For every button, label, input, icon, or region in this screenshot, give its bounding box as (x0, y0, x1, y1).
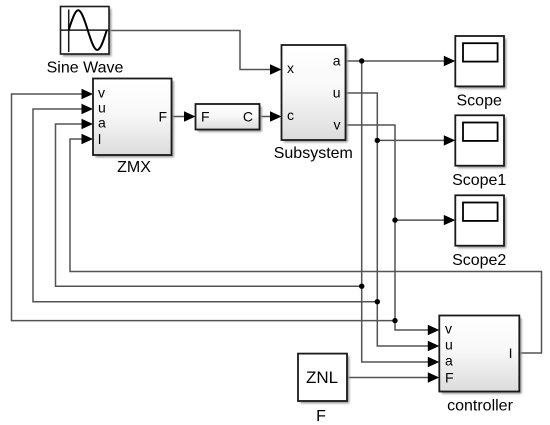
sine icon curve (69, 10, 107, 50)
wire v feedback to ZMX.v (12, 89, 396, 321)
block ZMX (93, 79, 174, 158)
junction dot a-feedback (359, 284, 364, 289)
svg-text:x: x (287, 60, 294, 76)
wire ZMX.F to FC (172, 111, 196, 121)
scope screen (463, 123, 498, 141)
junction dot v-scope2 (392, 217, 397, 222)
arrowhead into controller.u (428, 341, 440, 351)
svg-text:u: u (333, 85, 341, 101)
junction dot u-feedback (375, 299, 380, 304)
junction dot u-scope1 (375, 138, 380, 143)
svg-text:v: v (445, 321, 452, 337)
arrowhead into Subsystem.c (270, 111, 282, 121)
svg-text:ZNL: ZNL (306, 368, 338, 387)
svg-text:Subsystem: Subsystem (274, 145, 353, 162)
svg-text:v: v (334, 117, 341, 133)
wire FC to Subsystem.c (260, 111, 282, 121)
arrowhead into Scope (444, 56, 456, 66)
svg-text:a: a (98, 115, 106, 131)
sine icon vertical axis (68, 10, 70, 53)
svg-text:F: F (158, 109, 167, 125)
wire v branch to Scope2 (395, 215, 455, 225)
svg-text:a: a (333, 53, 341, 69)
svg-text:a: a (445, 353, 453, 369)
block F-C converter (196, 104, 262, 132)
svg-text:v: v (98, 85, 105, 101)
wire Subsystem.u down to controller.u (346, 93, 440, 351)
wire a feedback to ZMX.a (56, 119, 362, 286)
wire u feedback to ZMX.u (33, 104, 377, 302)
wire controller.I feedback to ZMX.l (70, 134, 542, 353)
arrowhead into FC.F (184, 111, 196, 121)
svg-text:u: u (98, 100, 106, 116)
wire ZNL to controller.F (347, 372, 439, 382)
scope screen (463, 203, 498, 221)
scope screen (463, 43, 498, 61)
wire Subsystem.a to Scope (346, 56, 456, 66)
svg-text:l: l (98, 131, 101, 147)
svg-text:I: I (509, 345, 513, 361)
svg-text:ZMX: ZMX (117, 159, 151, 176)
junction dot v-feedback (392, 318, 397, 323)
svg-text:c: c (287, 107, 294, 123)
block Scope (455, 36, 506, 89)
svg-text:Scope1: Scope1 (452, 172, 506, 189)
arrowhead into controller.v (428, 325, 440, 335)
svg-text:Scope: Scope (457, 93, 502, 110)
svg-text:F: F (201, 109, 210, 125)
block ZNL constant (298, 354, 349, 404)
arrowhead into ZMX.v (82, 89, 94, 99)
arrowhead into Scope1 (444, 135, 456, 145)
svg-text:F: F (445, 370, 454, 386)
arrowhead into Subsystem.x (270, 64, 282, 74)
wire a branch down to controller.a (362, 61, 440, 367)
block controller (439, 316, 521, 394)
wire u branch to Scope1 (377, 135, 455, 145)
arrowhead into ZMX.a (82, 119, 94, 129)
svg-text:Sine Wave: Sine Wave (47, 60, 124, 77)
svg-text:controller: controller (447, 398, 513, 415)
svg-text:F: F (316, 408, 326, 425)
arrowhead into ZMX.l (82, 134, 94, 144)
block Sine Wave (61, 7, 112, 57)
junction dot a-scope (359, 58, 364, 63)
block Scope1 (455, 115, 506, 168)
svg-text:u: u (445, 337, 453, 353)
arrowhead into controller.a (428, 357, 440, 367)
block Scope2 (455, 195, 506, 248)
arrowhead into ZMX.u (82, 104, 94, 114)
block Subsystem (282, 45, 348, 142)
sine icon horizontal axis (61, 29, 109, 31)
arrowhead into Scope2 (444, 215, 456, 225)
svg-text:C: C (243, 109, 253, 125)
wire sine to Subsystem.x (109, 31, 282, 75)
svg-text:Scope2: Scope2 (452, 252, 506, 269)
wire Subsystem.v down to controller.v (346, 125, 440, 335)
arrowhead into controller.F (428, 372, 440, 382)
